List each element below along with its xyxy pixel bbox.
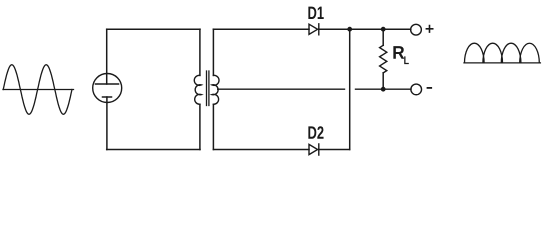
label D1 — [308, 7, 323, 19]
node junction dot bottom RL — [381, 87, 386, 92]
wire D2 cathode to corner — [319, 149, 350, 151]
minus sign — [428, 87, 432, 89]
diode D2 — [309, 144, 319, 155]
output waveform hump 3 — [501, 43, 521, 63]
resistor RL lead top — [382, 29, 384, 45]
output waveform hump 4 — [520, 43, 540, 63]
wire secondary left lower segment — [212, 104, 214, 149]
transformer T1 primary winding — [194, 75, 201, 104]
transformer T1 core line right — [208, 71, 210, 106]
wire secondary top run to D1 — [213, 28, 309, 30]
transformer center tap wire left of crossing — [218, 88, 345, 90]
label RL — [393, 46, 404, 59]
transformer T1 core line left — [206, 71, 208, 106]
resistor RL lead bottom — [382, 73, 384, 89]
wire primary right upper segment — [199, 29, 201, 75]
node junction dot top left — [347, 27, 352, 32]
node junction dot top right — [381, 27, 386, 32]
plus sign — [426, 26, 432, 33]
wire vertical D2 up to top node — [349, 29, 351, 149]
wire primary right lower segment — [199, 104, 201, 149]
resistor RL zigzag — [380, 45, 387, 73]
wire primary loop bottom — [107, 149, 200, 151]
input sine waveform axis — [3, 89, 74, 91]
label D2 — [308, 126, 323, 139]
wire D1 cathode to plus terminal — [319, 28, 411, 30]
wire secondary bottom run to D2 — [213, 149, 309, 151]
source V1 circle — [93, 74, 122, 103]
wire secondary left upper segment — [212, 29, 214, 75]
source V1 short bar — [103, 96, 112, 98]
output waveform baseline — [464, 62, 540, 64]
source V1 long bar — [96, 83, 119, 85]
terminal minus circle — [411, 84, 422, 95]
diode D1 — [309, 24, 319, 35]
input sine waveform — [3, 65, 72, 115]
wire primary loop top — [107, 28, 200, 30]
label RL subscript — [404, 56, 409, 64]
output waveform hump 1 — [465, 43, 485, 63]
wire primary left lower segment — [106, 97, 108, 150]
output waveform hump 2 — [483, 43, 503, 63]
transformer T1 secondary winding — [212, 75, 219, 104]
wire primary left upper segment — [106, 29, 108, 84]
center tap wire right of crossing — [356, 88, 412, 90]
terminal plus circle — [411, 24, 422, 35]
